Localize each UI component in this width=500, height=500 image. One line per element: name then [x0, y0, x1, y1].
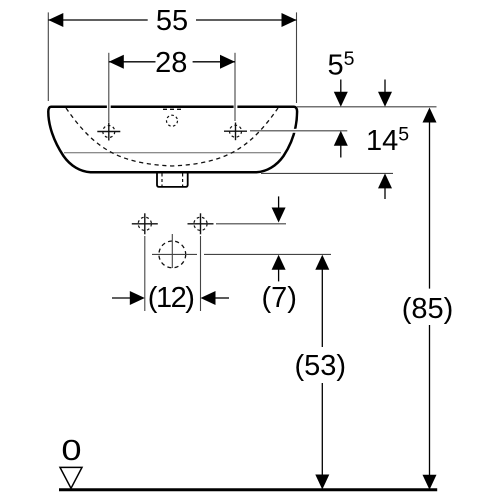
svg-text:28: 28 [155, 47, 187, 79]
extension line 12 right [200, 236, 202, 311]
extension line 28 right [234, 53, 236, 121]
svg-text:(53): (53) [295, 350, 347, 382]
arrowhead 55 left [48, 13, 63, 27]
extension line 12 left [144, 236, 146, 311]
basin outline [48, 107, 297, 173]
drain pipe dashed circle [159, 241, 186, 268]
drain spout [157, 173, 188, 187]
basin front rim line [64, 152, 281, 154]
top reference line [297, 106, 437, 108]
tap hole right cross [224, 123, 247, 141]
fixing hole right cross [188, 213, 214, 234]
tap hole right dashed circle [230, 125, 242, 137]
dimension line 28 [109, 61, 235, 63]
drain centre level line [204, 253, 331, 255]
dimension line 55 [48, 19, 296, 21]
arrowhead 55 right [282, 13, 297, 27]
tap hole left dashed circle [103, 126, 115, 138]
arrowhead 85 top [423, 108, 437, 123]
svg-text:(12): (12) [148, 282, 194, 314]
overflow dashed circle [167, 115, 178, 126]
fixing hole right dashed circle [194, 217, 207, 230]
arrowhead 53 bottom [315, 475, 329, 490]
svg-text:55: 55 [156, 5, 188, 37]
drain pipe horizontal centerline [152, 253, 197, 255]
dimension 14.5 upper arrow [378, 80, 392, 107]
drain pipe vertical centerline [171, 234, 173, 268]
dimension 5.5 lower arrow [334, 131, 348, 158]
drain level reference line [261, 172, 393, 174]
overflow dashed tick [163, 108, 181, 110]
dimension 12 right arrow [201, 291, 230, 305]
svg-text:0: 0 [61, 433, 81, 466]
svg-text:(85): (85) [402, 293, 454, 325]
fixing hole left cross [132, 213, 158, 234]
ground line [59, 488, 437, 491]
extension line 55 left [47, 12, 49, 101]
fixing hole level line [216, 223, 286, 225]
arrowhead 28 right [220, 55, 235, 69]
extension line 28 left [108, 53, 110, 122]
svg-text:(7): (7) [261, 282, 296, 314]
dimension 7 lower arrow [272, 255, 286, 282]
drain spout dashed pipe lines [161, 174, 163, 187]
tap hole left cross [97, 123, 120, 141]
dimension line 85 [429, 122, 431, 477]
dimension 5.5 upper arrow [334, 80, 348, 107]
basin bowl dashed contour [66, 108, 278, 166]
dimension 12 left arrow [112, 291, 145, 305]
dimension 7 upper arrow [272, 196, 286, 222]
dimension line 53 [321, 269, 323, 477]
arrowhead 85 bottom [423, 475, 437, 490]
arrowhead 28 left [109, 55, 124, 69]
extension line 55 right [296, 12, 298, 103]
datum triangle [60, 467, 82, 488]
arrowhead 53 top [315, 255, 329, 270]
dimension 14.5 lower arrow [378, 173, 392, 199]
fixing hole left dashed circle [138, 217, 151, 230]
tap level reference line [250, 130, 347, 132]
white gaps where thin lines cross basin edge [107, 105, 111, 109]
